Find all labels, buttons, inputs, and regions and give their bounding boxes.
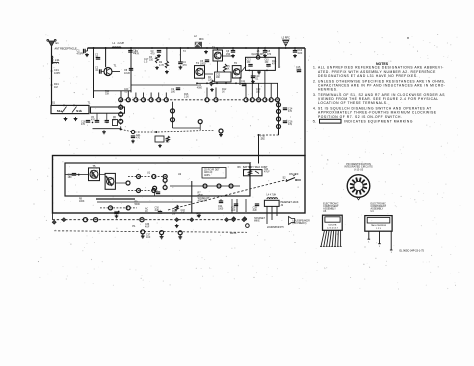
svg-text:4.7K: 4.7K bbox=[159, 64, 164, 67]
svg-text:HANDSET: HANDSET bbox=[254, 217, 266, 220]
svg-text:1UF: 1UF bbox=[146, 237, 151, 239]
svg-text:470: 470 bbox=[183, 64, 188, 67]
svg-text:1 2 3 4 5 6 7: 1 2 3 4 5 6 7 bbox=[327, 228, 339, 230]
svg-text:470: 470 bbox=[288, 110, 293, 113]
svg-text:470: 470 bbox=[261, 138, 266, 141]
svg-text:EL 965C-34P-23-1-75: EL 965C-34P-23-1-75 bbox=[400, 250, 425, 253]
svg-text:1K: 1K bbox=[145, 211, 148, 213]
svg-text:(NO PREFIX): (NO PREFIX) bbox=[293, 223, 307, 225]
svg-text:10PF: 10PF bbox=[54, 71, 61, 75]
svg-text:LOUDSPKR PH: LOUDSPKR PH bbox=[267, 227, 284, 229]
svg-text:2.: 2. bbox=[313, 79, 316, 83]
svg-text:S1a: S1a bbox=[57, 109, 63, 113]
svg-text:100K: 100K bbox=[79, 201, 85, 203]
svg-text:A2 P1: A2 P1 bbox=[230, 232, 237, 235]
svg-text:AC: AC bbox=[145, 208, 149, 211]
svg-text:150: 150 bbox=[226, 53, 231, 56]
svg-text:L4 4.7UH: L4 4.7UH bbox=[267, 195, 277, 197]
svg-text:1000: 1000 bbox=[200, 63, 206, 66]
svg-text:L31: L31 bbox=[55, 58, 60, 62]
svg-text:E1: E1 bbox=[56, 41, 60, 45]
svg-text:180: 180 bbox=[68, 176, 73, 179]
svg-text:470: 470 bbox=[136, 137, 141, 140]
svg-text:ADJUST: ADJUST bbox=[198, 200, 208, 203]
svg-text:HEADSET JACK: HEADSET JACK bbox=[281, 201, 299, 204]
svg-text:1K: 1K bbox=[222, 92, 225, 94]
svg-text:500K: 500K bbox=[135, 204, 141, 206]
svg-text:2.2K: 2.2K bbox=[184, 97, 189, 99]
svg-text:47K: 47K bbox=[135, 53, 140, 56]
svg-text:MIKE: MIKE bbox=[254, 221, 260, 223]
svg-text:47UF: 47UF bbox=[264, 172, 270, 174]
svg-text:S1b: S1b bbox=[76, 109, 82, 113]
svg-text:33K: 33K bbox=[105, 94, 110, 96]
svg-text:470: 470 bbox=[288, 123, 293, 126]
svg-text:470: 470 bbox=[267, 53, 272, 56]
svg-text:5.: 5. bbox=[313, 120, 316, 124]
svg-text:4000: 4000 bbox=[197, 87, 203, 89]
svg-text:AND AF: AND AF bbox=[204, 171, 213, 174]
svg-text:1K: 1K bbox=[113, 120, 116, 122]
svg-text:ANT RECEPTACLE: ANT RECEPTACLE bbox=[55, 47, 77, 50]
svg-text:4UF: 4UF bbox=[253, 210, 258, 212]
svg-text:1.: 1. bbox=[313, 66, 316, 70]
svg-text:4UF: 4UF bbox=[298, 52, 303, 55]
svg-text:TA6 & TA7/8999: TA6 & TA7/8999 bbox=[371, 224, 387, 227]
svg-text:470PF: 470PF bbox=[77, 52, 85, 55]
svg-text:RFC: RFC bbox=[199, 39, 204, 41]
svg-text:470: 470 bbox=[81, 123, 86, 126]
svg-text:1000: 1000 bbox=[218, 209, 224, 211]
svg-text:4UF: 4UF bbox=[145, 227, 150, 229]
svg-text:POSITION OF R7. S2 IS ON-OFF: POSITION OF R7. S2 IS ON-OFF SWITCH. bbox=[318, 115, 402, 119]
svg-text:LOCATION OF THESE TERMINALS.: LOCATION OF THESE TERMINALS. bbox=[318, 101, 388, 105]
svg-text:HENRIES.: HENRIES. bbox=[318, 88, 338, 92]
svg-text:4UF: 4UF bbox=[181, 213, 186, 215]
svg-text:U2547B: U2547B bbox=[328, 224, 336, 226]
svg-text:INDICATES EQUIPMENT MARKING: INDICATES EQUIPMENT MARKING bbox=[344, 120, 413, 124]
svg-text:U-10 U5: U-10 U5 bbox=[354, 168, 364, 171]
svg-text:150: 150 bbox=[149, 59, 154, 62]
svg-text:180: 180 bbox=[171, 91, 176, 94]
svg-text:3.: 3. bbox=[313, 93, 316, 97]
svg-text:AMPL: AMPL bbox=[204, 174, 211, 177]
svg-text:10UF: 10UF bbox=[124, 72, 131, 75]
svg-text:L3 RFC: L3 RFC bbox=[282, 37, 291, 40]
svg-text:1M: 1M bbox=[172, 214, 175, 216]
svg-text:LOUDSPEAKER: LOUDSPEAKER bbox=[293, 220, 311, 223]
svg-text:4.: 4. bbox=[313, 107, 316, 111]
svg-text:DESIGNATIONS E7 AND L31 HAVE N: DESIGNATIONS E7 AND L31 HAVE NO PREFIXES… bbox=[318, 74, 418, 78]
svg-text:2.2UH: 2.2UH bbox=[118, 43, 125, 45]
svg-text:1K: 1K bbox=[227, 68, 230, 71]
svg-text:1M: 1M bbox=[54, 85, 58, 89]
svg-text:4UF: 4UF bbox=[231, 210, 236, 212]
